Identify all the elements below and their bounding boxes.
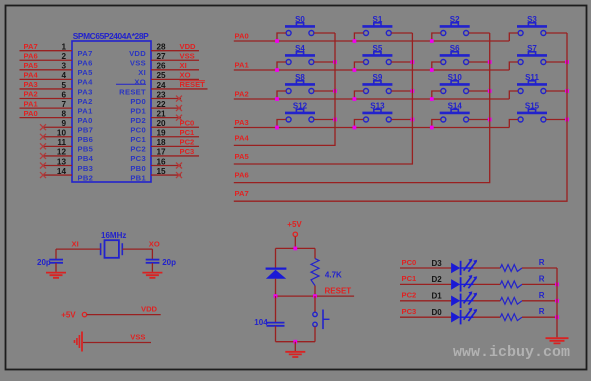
wire resistor to common column row 0 — [522, 267, 557, 269]
wire no-connect pin 9 — [43, 126, 72, 128]
junction column 0 row 3 — [333, 118, 337, 122]
svg-text:PB7: PB7 — [78, 126, 94, 135]
wire net VSS from pin 27 — [151, 59, 199, 61]
switch S1 body — [362, 23, 392, 36]
svg-text:PA4: PA4 — [24, 71, 39, 80]
wire no-connect pin 14 — [43, 174, 72, 176]
wire resistor branch upper — [314, 248, 316, 258]
wire S5 right terminal to column — [391, 61, 412, 63]
ground LED common — [546, 338, 569, 343]
svg-text:PA6: PA6 — [24, 51, 38, 60]
svg-text:XI: XI — [138, 68, 146, 77]
junction column 3 row 3 — [565, 118, 569, 122]
wire S0 right terminal to column — [314, 32, 335, 34]
wire middle rail RESET net — [276, 295, 355, 297]
junction top rail — [293, 247, 297, 251]
capacitor C3 body — [267, 296, 285, 342]
svg-text:PA2: PA2 — [235, 90, 249, 99]
svg-text:D2: D2 — [432, 275, 443, 284]
svg-text:PC1: PC1 — [180, 128, 196, 137]
svg-text:XO: XO — [180, 71, 191, 80]
wire resistor branch lower — [314, 286, 316, 297]
wire bottom rail — [276, 341, 316, 343]
wire XI net — [56, 248, 101, 250]
wire S3 left terminal to row PA0 — [509, 33, 518, 41]
junction column 0 row 1 — [333, 60, 337, 64]
svg-text:PB3: PB3 — [78, 164, 94, 173]
svg-text:4.7K: 4.7K — [325, 270, 342, 279]
junction row PA2 column 1 — [353, 97, 357, 101]
wire S13 left terminal to row PA3 — [354, 120, 363, 128]
junction column 2 row 2 — [488, 89, 492, 93]
svg-text:VDD: VDD — [180, 42, 197, 51]
svg-text:D0: D0 — [432, 308, 443, 317]
wire S15 right terminal to column — [546, 119, 567, 121]
wire diode branch upper — [275, 248, 277, 268]
pushbutton S16 reset switch — [313, 296, 330, 342]
wire net VDD from pin 28 — [151, 50, 199, 52]
svg-text:PA4: PA4 — [78, 78, 94, 87]
ground reset circuit — [285, 352, 305, 357]
wire S1 left terminal to row PA0 — [354, 33, 363, 41]
svg-text:SPMC65P2404A*28P: SPMC65P2404A*28P — [73, 31, 149, 41]
junction column 1 row 1 — [411, 60, 415, 64]
switch S11 body — [517, 81, 547, 94]
wire S9 right terminal to column — [391, 90, 412, 92]
wire column 0 vertical to PA4 — [234, 33, 335, 145]
wire net XI from pin 26 — [151, 69, 199, 71]
junction row PA2 column 2 — [430, 97, 434, 101]
junction middle rail left — [274, 294, 278, 298]
switch S2 body — [440, 23, 470, 36]
wire row net PA0 — [234, 40, 510, 42]
wire net PC0 from pin 20 — [151, 126, 199, 128]
junction row PA1 column 1 — [353, 68, 357, 72]
svg-text:PC1: PC1 — [130, 135, 146, 144]
resistor R row 3 — [500, 314, 522, 321]
wire S2 right terminal to column — [469, 32, 490, 34]
wire S3 right terminal to column — [546, 32, 567, 34]
svg-text:PC0: PC0 — [130, 126, 146, 135]
svg-text:www.icbuy.com: www.icbuy.com — [453, 344, 570, 361]
earth symbol VSS — [75, 332, 83, 352]
switch S6 body — [440, 52, 470, 65]
wire LED D2 to resistor — [474, 283, 501, 285]
no-connect mark pin 9 — [40, 124, 46, 130]
wire VDD net — [87, 314, 161, 316]
wire XO net — [122, 248, 152, 250]
wire S6 left terminal to row PA1 — [432, 62, 441, 70]
resistor R5 4.7K — [311, 259, 319, 286]
wire row net PA2 — [234, 98, 510, 100]
wire S5 left terminal to row PA1 — [354, 62, 363, 70]
switch S15 body — [517, 109, 547, 122]
svg-text:D3: D3 — [432, 259, 443, 268]
wire column 2 vertical to PA6 — [234, 33, 490, 183]
svg-text:PA0: PA0 — [235, 32, 249, 41]
wire net RESET from pin 24 — [151, 88, 208, 90]
svg-text:PC2: PC2 — [130, 145, 146, 154]
switch S0 body — [285, 23, 315, 36]
wire net PA0 to pin 8 — [20, 117, 73, 119]
wire net PA4 to pin 4 — [20, 78, 73, 80]
no-connect mark pin 14 — [40, 172, 46, 178]
no-connect mark pin 15 — [176, 172, 182, 178]
wire +5V down to rail — [294, 237, 296, 249]
no-connect mark pin 11 — [40, 143, 46, 149]
LED D3 symbol — [451, 259, 477, 276]
junction row PA0 column 1 — [353, 39, 357, 43]
wire column 1 vertical to PA5 — [234, 33, 413, 164]
junction row PA0 column 2 — [430, 39, 434, 43]
junction column 1 row 3 — [411, 118, 415, 122]
svg-text:XI: XI — [180, 61, 187, 70]
wire LED D3 to resistor — [474, 267, 501, 269]
wire no-connect pin 22 — [151, 107, 181, 109]
svg-text:PA3: PA3 — [78, 87, 93, 96]
wire S2 left terminal to row PA0 — [432, 33, 441, 41]
svg-text:RESET: RESET — [325, 287, 352, 296]
wire no-connect pin 23 — [151, 98, 181, 100]
svg-text:PA5: PA5 — [24, 61, 39, 70]
no-connect mark pin 23 — [176, 96, 182, 102]
junction middle rail right — [313, 294, 317, 298]
svg-text:PB1: PB1 — [130, 173, 146, 182]
switch S4 body — [285, 52, 315, 65]
mcu U1 SPMC65P2404A*28P body — [72, 41, 151, 182]
wire no-connect pin 21 — [151, 117, 181, 119]
wire no-connect pin 10 — [43, 136, 72, 138]
svg-text:PD1: PD1 — [130, 106, 146, 115]
junction row PA3 column 2 — [430, 126, 434, 130]
svg-text:PB4: PB4 — [78, 154, 94, 163]
wire net PA6 to pin 2 — [20, 59, 73, 61]
svg-text:PA0: PA0 — [78, 116, 93, 125]
svg-text:PA4: PA4 — [235, 133, 250, 142]
svg-text:PA0: PA0 — [24, 109, 38, 118]
no-connect mark pin 10 — [40, 134, 46, 140]
wire S4 right terminal to column — [314, 61, 335, 63]
svg-text:R: R — [539, 307, 545, 316]
svg-text:PB2: PB2 — [78, 173, 94, 182]
junction column 2 row 1 — [488, 60, 492, 64]
wire no-connect pin 16 — [151, 164, 181, 166]
junction row PA3 column 0 — [275, 126, 279, 130]
wire S10 right terminal to column — [469, 90, 490, 92]
no-connect mark pin 22 — [176, 105, 182, 111]
wire column 3 vertical to PA7 — [234, 33, 567, 201]
svg-text:PA2: PA2 — [24, 90, 38, 99]
svg-text:PA2: PA2 — [78, 97, 93, 106]
wire net PA3 to pin 5 — [20, 88, 73, 90]
svg-text:PD2: PD2 — [130, 116, 146, 125]
svg-text:RESET: RESET — [180, 80, 206, 89]
junction common column row 1 — [555, 283, 559, 287]
svg-text:16MHz: 16MHz — [101, 231, 126, 240]
no-connect mark pin 21 — [176, 115, 182, 121]
svg-text:PC2: PC2 — [180, 138, 195, 147]
wire no-connect pin 15 — [151, 174, 181, 176]
svg-text:PB6: PB6 — [78, 135, 94, 144]
junction common column row 2 — [555, 299, 559, 303]
wire LED D1 to resistor — [474, 300, 501, 302]
junction row PA3 column 1 — [353, 126, 357, 130]
svg-text:XO: XO — [134, 78, 146, 87]
wire S7 left terminal to row PA1 — [509, 62, 518, 70]
svg-text:PC3: PC3 — [402, 307, 417, 316]
wire LED D0 to resistor — [474, 316, 501, 318]
node label RESET overbar — [180, 80, 206, 82]
wire S13 right terminal to column — [391, 119, 412, 121]
no-connect mark pin 12 — [40, 153, 46, 159]
svg-text:PA3: PA3 — [24, 80, 38, 89]
resistor R row 2 — [500, 297, 522, 304]
wire S4 left terminal to row PA1 — [277, 62, 286, 70]
junction column 1 row 2 — [411, 89, 415, 93]
wire S9 left terminal to row PA2 — [354, 91, 363, 99]
resistor R row 0 — [500, 265, 522, 272]
wire net PA1 to pin 7 — [20, 107, 73, 109]
no-connect mark pin 16 — [176, 162, 182, 168]
wire S12 left terminal to row PA3 — [277, 120, 286, 128]
wire no-connect pin 11 — [43, 145, 72, 147]
svg-text:R: R — [539, 258, 545, 267]
wire resistor to common column row 1 — [522, 283, 557, 285]
junction common column row 3 — [555, 315, 559, 319]
LED D1 symbol — [451, 291, 477, 308]
wire net PA7 to pin 1 — [20, 50, 73, 52]
no-connect mark pin 13 — [40, 162, 46, 168]
ground below C2 — [142, 273, 162, 278]
svg-text:PA1: PA1 — [78, 106, 94, 115]
junction column 3 row 1 — [565, 60, 569, 64]
wire S7 right terminal to column — [546, 61, 567, 63]
wire net PC3 to LED D0 — [400, 316, 451, 318]
mcu U1 RESET overbar — [116, 83, 146, 85]
svg-text:R: R — [539, 274, 545, 283]
capacitor C1 body — [49, 249, 63, 272]
junction row PA0 column 0 — [275, 39, 279, 43]
svg-text:PA3: PA3 — [235, 118, 249, 127]
wire row net PA3 — [234, 127, 510, 129]
wire net PC3 from pin 17 — [151, 155, 199, 157]
svg-text:PB0: PB0 — [130, 164, 146, 173]
wire no-connect pin 13 — [43, 164, 72, 166]
wire top rail — [276, 247, 316, 249]
svg-text:PB5: PB5 — [78, 145, 94, 154]
wire S11 left terminal to row PA2 — [509, 91, 518, 99]
svg-text:VDD: VDD — [141, 305, 158, 314]
wire S10 left terminal to row PA2 — [432, 91, 441, 99]
junction column 3 row 2 — [565, 89, 569, 93]
junction row PA1 column 2 — [430, 68, 434, 72]
svg-text:XI: XI — [72, 239, 79, 248]
svg-text:20p: 20p — [162, 258, 176, 267]
switch S5 body — [362, 52, 392, 65]
wire net PC0 to LED D3 — [400, 267, 451, 269]
svg-text:PC2: PC2 — [402, 291, 417, 300]
svg-text:+5V: +5V — [61, 311, 76, 320]
svg-text:VDD: VDD — [129, 49, 146, 58]
wire S8 left terminal to row PA2 — [277, 91, 286, 99]
svg-text:VSS: VSS — [180, 51, 195, 60]
switch S12 body — [285, 109, 315, 122]
ground below C1 — [46, 273, 66, 278]
wire LED common column — [556, 268, 558, 337]
svg-text:VSS: VSS — [130, 332, 145, 341]
capacitor C2 body — [146, 249, 160, 272]
LED D0 symbol — [451, 308, 477, 325]
junction bottom rail — [293, 340, 297, 344]
wire S12 right terminal to column — [314, 119, 335, 121]
svg-text:PA1: PA1 — [235, 61, 250, 70]
wire net PA2 to pin 6 — [20, 98, 73, 100]
switch S13 body — [362, 109, 392, 122]
svg-text:R: R — [539, 291, 545, 300]
wire net PA5 to pin 3 — [20, 69, 73, 71]
switch S10 body — [440, 81, 470, 94]
wire net PC2 from pin 18 — [151, 145, 199, 147]
LED D2 symbol — [451, 275, 477, 292]
switch S7 body — [517, 52, 547, 65]
svg-text:PC1: PC1 — [402, 274, 418, 283]
svg-text:PC3: PC3 — [180, 147, 195, 156]
switch S9 body — [362, 81, 392, 94]
wire ground stem — [294, 342, 296, 351]
wire no-connect pin 12 — [43, 155, 72, 157]
svg-text:+5V: +5V — [287, 220, 302, 229]
wire S14 right terminal to column — [469, 119, 490, 121]
svg-text:VSS: VSS — [130, 59, 146, 68]
wire row net PA1 — [234, 69, 510, 71]
junction column 2 row 3 — [488, 118, 492, 122]
wire S8 right terminal to column — [314, 90, 335, 92]
resistor R row 1 — [500, 281, 522, 288]
svg-text:RESET: RESET — [119, 87, 146, 96]
wire VSS net — [83, 342, 151, 344]
svg-text:PA7: PA7 — [235, 189, 249, 198]
wire net PC1 to LED D2 — [400, 283, 451, 285]
svg-text:PA6: PA6 — [235, 171, 249, 180]
switch S14 body — [440, 109, 470, 122]
switch S8 body — [285, 81, 315, 94]
svg-text:PA6: PA6 — [78, 59, 93, 68]
svg-text:PA5: PA5 — [235, 152, 250, 161]
wire S6 right terminal to column — [469, 61, 490, 63]
wire S15 left terminal to row PA3 — [509, 120, 518, 128]
svg-text:20p: 20p — [37, 258, 51, 267]
svg-text:PD0: PD0 — [130, 97, 146, 106]
wire S0 left terminal to row PA0 — [277, 33, 286, 41]
wire net XO from pin 25 — [151, 78, 199, 80]
svg-text:D1: D1 — [432, 292, 443, 301]
junction row PA1 column 0 — [275, 68, 279, 72]
wire S14 left terminal to row PA3 — [432, 120, 441, 128]
junction column 0 row 2 — [333, 89, 337, 93]
junction row PA2 column 0 — [275, 97, 279, 101]
switch S3 body — [517, 23, 547, 36]
wire diode branch lower — [275, 279, 277, 296]
wire resistor to common column row 3 — [522, 316, 557, 318]
wire net PC1 from pin 19 — [151, 136, 199, 138]
svg-text:PA7: PA7 — [24, 42, 38, 51]
wire S11 right terminal to column — [546, 90, 567, 92]
svg-text:PA1: PA1 — [24, 99, 39, 108]
diode D4 — [266, 269, 287, 279]
svg-text:PC3: PC3 — [130, 154, 146, 163]
svg-text:PC0: PC0 — [180, 118, 195, 127]
svg-text:PA7: PA7 — [78, 49, 93, 58]
wire resistor to common column row 2 — [522, 300, 557, 302]
svg-text:104: 104 — [254, 318, 268, 327]
svg-text:XO: XO — [149, 239, 160, 248]
svg-text:PA5: PA5 — [78, 68, 94, 77]
wire net PC2 to LED D1 — [400, 300, 451, 302]
svg-text:PC0: PC0 — [402, 258, 417, 267]
crystal Y1 body — [101, 240, 123, 258]
wire S1 right terminal to column — [391, 32, 412, 34]
